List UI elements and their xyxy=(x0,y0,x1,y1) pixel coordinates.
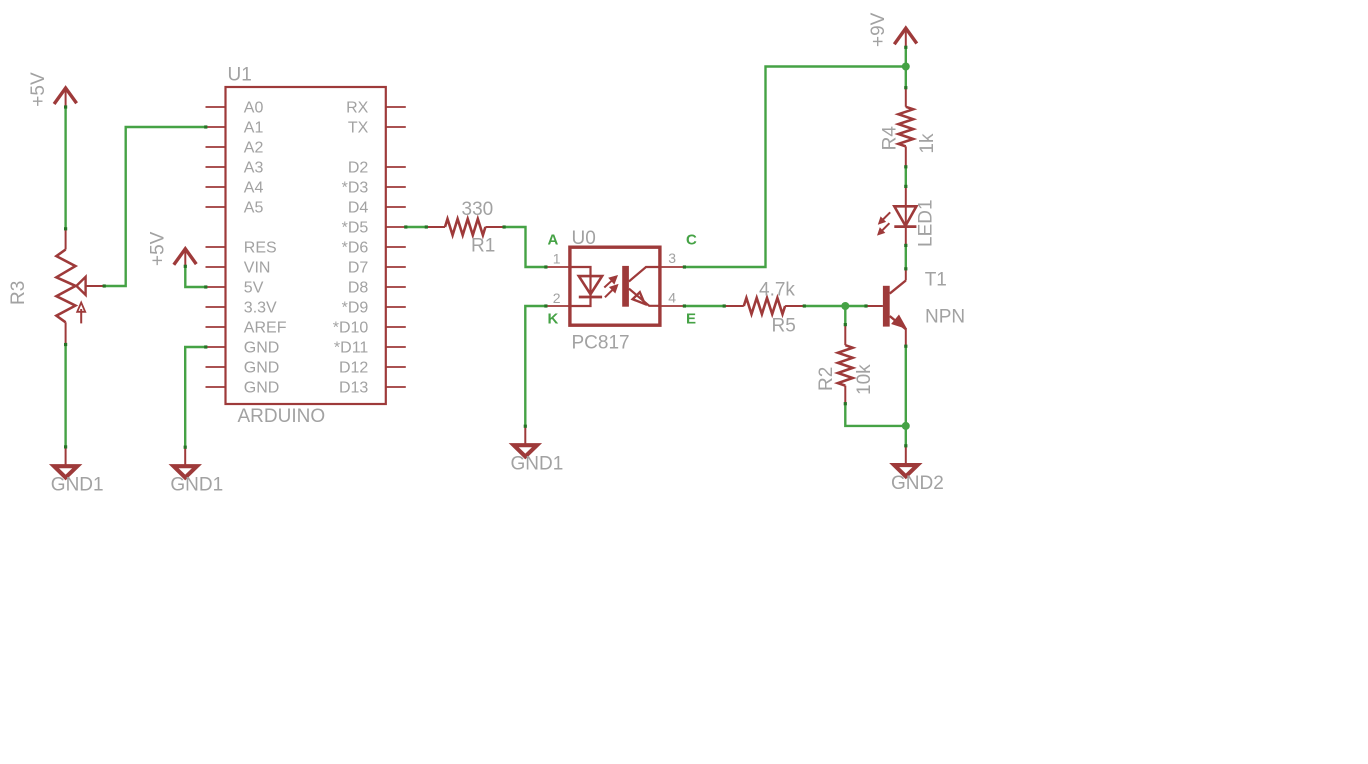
svg-text:VIN: VIN xyxy=(244,260,271,277)
svg-text:*D11: *D11 xyxy=(334,340,368,357)
svg-text:R2: R2 xyxy=(816,367,837,391)
junction dot at base xyxy=(841,302,849,310)
svg-text:*D6: *D6 xyxy=(342,240,369,257)
ground GND1 (middle) xyxy=(524,426,526,446)
svg-text:D2: D2 xyxy=(348,160,369,177)
svg-text:R1: R1 xyxy=(471,236,495,257)
svg-text:E: E xyxy=(686,311,696,328)
svg-text:R3: R3 xyxy=(8,281,29,305)
svg-text:A1: A1 xyxy=(244,120,264,137)
wire T1 emitter to GND2 xyxy=(905,346,907,446)
svg-text:2: 2 xyxy=(553,290,561,306)
svg-text:1: 1 xyxy=(553,251,561,267)
svg-text:GND: GND xyxy=(244,380,280,397)
svg-text:NPN: NPN xyxy=(925,307,965,328)
power +9V supply symbol xyxy=(894,28,917,44)
svg-text:+5V: +5V xyxy=(28,72,49,107)
junction dot at emitter xyxy=(902,422,910,430)
svg-text:U0: U0 xyxy=(572,228,596,249)
IC U1 ARDUINO xyxy=(226,87,386,404)
svg-text:*D3: *D3 xyxy=(342,180,369,197)
svg-text:3.3V: 3.3V xyxy=(244,300,277,317)
pin connection markers xyxy=(64,105,67,108)
wire R3 to GND1 xyxy=(64,345,66,448)
svg-text:A3: A3 xyxy=(244,160,264,177)
svg-text:1k: 1k xyxy=(917,133,938,154)
wire R4 to LED1 xyxy=(905,167,907,187)
svg-text:TX: TX xyxy=(348,120,369,137)
svg-text:PC817: PC817 xyxy=(572,333,630,354)
wire LED1 to T1 collector xyxy=(905,245,907,268)
svg-text:GND: GND xyxy=(244,360,280,377)
svg-text:A: A xyxy=(548,232,559,249)
svg-text:A2: A2 xyxy=(244,140,264,157)
wire GND pin to GND1 xyxy=(185,347,206,447)
wire R5 to T1 base xyxy=(804,305,866,307)
potentiometer R3 xyxy=(65,229,67,250)
ground GND1 (second) xyxy=(184,447,186,467)
svg-text:C: C xyxy=(686,232,697,249)
svg-text:R5: R5 xyxy=(772,316,796,337)
svg-text:GND1: GND1 xyxy=(511,453,564,474)
wire R3 wiper to pin A1 xyxy=(104,127,206,286)
svg-text:4: 4 xyxy=(668,290,676,306)
wire opto pin 3 to +9V rail xyxy=(684,67,905,268)
svg-text:D12: D12 xyxy=(339,360,368,377)
ground GND1 (left) xyxy=(65,447,67,467)
wire R2 to emitter junction xyxy=(845,404,906,426)
svg-text:T1: T1 xyxy=(925,269,947,290)
svg-text:3: 3 xyxy=(668,250,676,266)
wire +5V to 5V pin xyxy=(185,266,206,287)
svg-text:GND1: GND1 xyxy=(51,474,104,495)
svg-text:R4: R4 xyxy=(880,126,901,151)
svg-text:A5: A5 xyxy=(244,200,264,217)
svg-text:+5V: +5V xyxy=(148,231,169,266)
svg-text:A4: A4 xyxy=(244,180,264,197)
svg-text:RX: RX xyxy=(346,100,369,117)
svg-text:D13: D13 xyxy=(339,380,368,397)
resistor R4 1k xyxy=(905,88,907,107)
svg-text:*D5: *D5 xyxy=(342,220,369,237)
resistor R2 10k xyxy=(844,325,846,346)
wire R1 to opto pin 1 xyxy=(504,227,546,267)
svg-text:*D9: *D9 xyxy=(342,300,369,317)
svg-text:LED1: LED1 xyxy=(915,199,936,247)
svg-text:A0: A0 xyxy=(244,100,264,117)
power +5V supply symbol (left) xyxy=(54,88,77,104)
svg-text:K: K xyxy=(548,311,559,328)
resistor R1 330 xyxy=(426,226,445,228)
svg-text:AREF: AREF xyxy=(244,320,287,337)
wire +5V to R3 top xyxy=(64,107,66,229)
wire +9V to junction xyxy=(905,47,907,87)
svg-text:4.7k: 4.7k xyxy=(759,279,795,300)
svg-text:RES: RES xyxy=(244,240,277,257)
power +5V supply symbol (second) xyxy=(174,249,197,265)
wire base junction to R2 xyxy=(844,306,846,325)
svg-text:5V: 5V xyxy=(244,280,264,297)
resistor R5 4.7k xyxy=(724,305,744,307)
svg-text:D4: D4 xyxy=(348,200,369,217)
LED LED1 xyxy=(905,186,907,226)
svg-text:U1: U1 xyxy=(228,65,252,86)
svg-text:D8: D8 xyxy=(348,280,369,297)
svg-text:330: 330 xyxy=(462,199,494,220)
svg-text:ARDUINO: ARDUINO xyxy=(238,406,326,427)
svg-text:10k: 10k xyxy=(854,364,875,395)
svg-text:GND2: GND2 xyxy=(891,473,944,494)
svg-text:*D10: *D10 xyxy=(333,320,369,337)
ground GND2 xyxy=(905,446,907,466)
transistor T1 NPN xyxy=(905,269,907,281)
svg-text:+9V: +9V xyxy=(868,12,889,47)
svg-text:D7: D7 xyxy=(348,260,369,277)
optocoupler U0 PC817 xyxy=(570,247,660,325)
svg-text:GND: GND xyxy=(244,340,280,357)
junction dot at +9V rail xyxy=(902,63,910,71)
wire opto pin 2 to GND1 xyxy=(525,306,546,426)
wire opto pin 4 to R5 xyxy=(684,305,724,307)
svg-text:GND1: GND1 xyxy=(170,474,223,495)
wire D5 to R1 xyxy=(406,226,427,228)
